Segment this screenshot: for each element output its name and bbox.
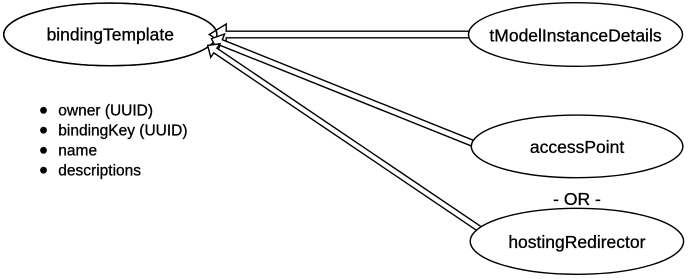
svg-text:hostingRedirector: hostingRedirector [508, 232, 645, 252]
ellipse accessPoint [471, 115, 683, 178]
svg-text:bindingTemplate: bindingTemplate [47, 25, 174, 45]
bullet descriptions [40, 167, 47, 174]
ellipse bindingTemplate [4, 3, 217, 66]
svg-text:bindingKey (UUID): bindingKey (UUID) [58, 123, 187, 140]
svg-text:accessPoint: accessPoint [530, 137, 624, 157]
wire arrow from hostingRedirector to bindingTemplate [208, 44, 484, 233]
ellipse hostingRedirector [470, 208, 683, 274]
wire arrow from accessPoint to bindingTemplate [211, 34, 478, 148]
svg-text:tModelInstanceDetails: tModelInstanceDetails [489, 25, 661, 45]
svg-text:name: name [58, 143, 97, 160]
bullet owner [40, 107, 47, 114]
svg-text:owner (UUID): owner (UUID) [58, 103, 153, 120]
svg-text:descriptions: descriptions [58, 163, 141, 180]
ellipse tModelInstanceDetails [469, 3, 683, 67]
bullet bindingKey [40, 127, 47, 134]
ellipse bindingTemplate outline redrawn over arrow tip [4, 3, 217, 66]
bullet name [40, 147, 47, 154]
wire arrow from tModelInstanceDetails to bindingTemplate [209, 24, 472, 45]
svg-text:- OR -: - OR - [553, 189, 601, 209]
